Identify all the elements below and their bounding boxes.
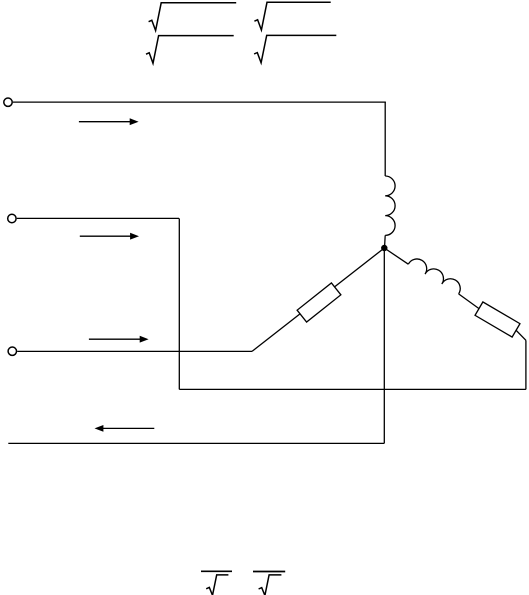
inductor L2 (slanted coil)	[408, 259, 460, 294]
wire node down to return	[383, 248, 385, 443]
resistor R2	[475, 302, 520, 337]
wire phase A horizontal	[13, 101, 386, 103]
formula radical SB	[259, 575, 282, 595]
wire phase B bottom horizontal	[179, 388, 526, 390]
wire phase A vertical drop	[384, 102, 386, 176]
wire phase B vertical	[178, 218, 180, 389]
wire phase B horizontal	[17, 217, 179, 219]
wire coil to node	[384, 235, 387, 248]
wire bottom return	[8, 442, 384, 444]
terminal C	[8, 347, 16, 355]
formula overbar SB	[253, 571, 285, 573]
wire diagonal C to node	[252, 248, 384, 351]
wire phase B right vertical	[525, 340, 527, 389]
terminal B	[8, 214, 16, 222]
formula radical F2 (top-left denominator)	[146, 36, 234, 64]
formula radical F3 (top-right numerator)	[254, 2, 330, 30]
inductor L1 (phase A coil)	[385, 176, 395, 235]
formula overbar SA	[201, 570, 232, 572]
resistor R1	[297, 283, 341, 322]
current arrow IA	[79, 118, 139, 125]
formula radical F4 (top-right denominator)	[254, 35, 336, 62]
wire coil L2 to R2	[459, 294, 526, 340]
formula radical F1 (top-left numerator)	[149, 3, 237, 31]
wire node to coil L2	[384, 248, 408, 264]
current arrow return	[95, 425, 155, 432]
current arrow IC	[89, 336, 149, 343]
formula radical SA	[206, 575, 228, 595]
wire phase C horizontal	[17, 350, 252, 352]
terminal A	[4, 98, 12, 106]
node star point	[381, 245, 387, 251]
current arrow IB	[80, 233, 139, 240]
